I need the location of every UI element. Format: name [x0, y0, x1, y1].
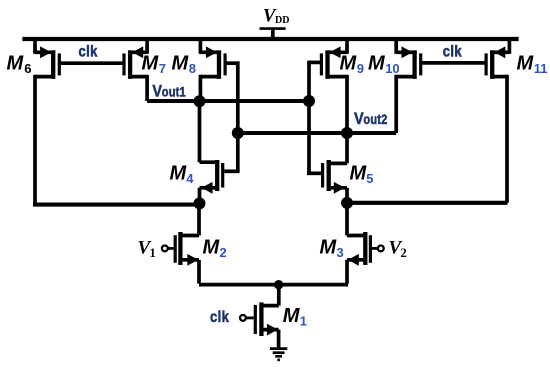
transistor M3 source lead with arrow	[347, 254, 365, 284]
transistor M4 source lead with arrow	[200, 182, 216, 204]
transistor M1 gate lead	[246, 316, 254, 319]
wire M11 drain to M5 source node	[347, 201, 508, 205]
svg-text:1: 1	[150, 246, 156, 260]
junction Vout1 / M9 gate / M5 gate	[303, 95, 315, 107]
transistor M9 (PMOS) drain lead	[328, 75, 348, 133]
wire clk gate wire M6-M7	[60, 61, 123, 65]
svg-text:1: 1	[300, 314, 307, 329]
transistor M4 gate bar	[221, 163, 224, 188]
svg-text:M: M	[7, 52, 25, 74]
junction Vout2 / M8 gate / M4 gate	[232, 127, 244, 139]
wire clk gate wire M10-M11	[422, 61, 485, 65]
transistor M9 (PMOS) channel bar	[325, 50, 329, 79]
transistor M11 (PMOS) gate bar	[485, 53, 488, 75]
transistor M8 (PMOS) source lead	[200, 37, 221, 58]
svg-text:5: 5	[366, 171, 373, 186]
wire VDD top rail	[22, 37, 518, 41]
wire VDD stub	[271, 29, 275, 39]
junction Vout1 / M8 drain / M4 drain	[194, 95, 206, 107]
svg-text:M: M	[283, 305, 301, 327]
transistor M2 channel bar	[178, 232, 182, 265]
svg-text:clk: clk	[79, 43, 98, 60]
svg-text:2: 2	[220, 245, 227, 260]
transistor M2 gate bar	[174, 235, 177, 263]
transistor M3 channel bar	[363, 232, 367, 265]
transistor M6 (PMOS) drain lead	[35, 75, 53, 207]
transistor M6 (PMOS) source lead	[35, 37, 55, 58]
transistor M9 (PMOS) gate bar	[320, 53, 323, 75]
svg-text:M: M	[368, 52, 386, 74]
svg-text:clk: clk	[210, 309, 229, 326]
svg-text:out2: out2	[363, 112, 387, 127]
junction Vout2 / M9 drain / M5 drain	[341, 127, 353, 139]
transistor M3 gate bar	[369, 235, 372, 263]
transistor M7 (PMOS) source lead	[128, 37, 147, 58]
svg-text:DD: DD	[275, 15, 289, 26]
svg-text:M: M	[320, 237, 338, 259]
transistor M3 gate lead	[372, 247, 378, 250]
wire M8 gate to Vout2	[226, 61, 238, 133]
transistor M2 source lead with arrow	[180, 254, 199, 284]
transistor M2 drain lead	[180, 204, 199, 236]
transistor M11 (PMOS) source lead	[490, 37, 509, 58]
wire M6 drain to M4 source node	[33, 203, 200, 207]
transistor M10 (PMOS) drain lead	[396, 75, 414, 133]
transistor M8 (PMOS) gate bar	[224, 53, 227, 75]
svg-text:2: 2	[401, 246, 407, 260]
junction M4 source / M6 drain / M2 drain	[194, 197, 206, 209]
transistor M7 (PMOS) drain lead	[130, 75, 147, 101]
svg-text:clk: clk	[443, 43, 462, 60]
transistor M11 (PMOS) drain lead	[492, 75, 507, 203]
label Vout1	[152, 83, 185, 101]
transistor M5 gate lead from Vout1	[307, 101, 321, 173]
input terminal V2 circle	[378, 246, 384, 252]
transistor M8 (PMOS) channel bar	[217, 50, 221, 79]
transistor M1 channel bar	[259, 302, 263, 336]
transistor M3 drain lead	[347, 203, 365, 236]
transistor M4 gate lead from Vout2	[224, 133, 239, 171]
svg-text:M: M	[142, 52, 160, 74]
transistor M10 (PMOS) source lead	[396, 37, 417, 58]
wire M9 gate to Vout1	[309, 61, 320, 101]
svg-text:9: 9	[357, 61, 364, 76]
transistor M5 channel bar	[327, 160, 331, 191]
transistor M11 (PMOS) channel bar	[490, 50, 494, 79]
transistor M1 drain lead	[261, 285, 278, 306]
transistor M7 (PMOS) channel bar	[128, 50, 132, 79]
transistor M7 (PMOS) gate bar	[122, 53, 125, 75]
label V1	[138, 238, 156, 260]
svg-text:M: M	[517, 52, 535, 74]
svg-text:M: M	[203, 237, 221, 259]
svg-text:M: M	[172, 52, 190, 74]
transistor M4 channel bar	[215, 160, 219, 191]
transistor M10 (PMOS) channel bar	[412, 50, 416, 79]
svg-text:8: 8	[189, 61, 196, 76]
svg-text:7: 7	[159, 61, 166, 76]
transistor M5 gate bar	[321, 163, 324, 188]
label V2	[389, 238, 407, 260]
transistor M10 (PMOS) gate bar	[419, 53, 422, 75]
svg-text:6: 6	[24, 61, 31, 76]
input terminal V1 circle	[162, 246, 168, 252]
ground symbol	[270, 349, 287, 360]
svg-text:out1: out1	[162, 85, 186, 100]
transistor M5 drain lead from Vout2	[328, 133, 348, 163]
transistor M5 source lead with arrow	[331, 182, 347, 203]
svg-text:3: 3	[337, 245, 344, 260]
transistor M1 source lead with arrow	[261, 324, 278, 349]
label Vout2	[354, 110, 387, 128]
svg-text:M: M	[350, 163, 368, 185]
power VDD terminal bar	[260, 27, 286, 30]
transistor M2 gate lead	[168, 247, 174, 250]
wire node Vout2 horizontal	[238, 131, 396, 135]
transistor M9 (PMOS) source lead	[325, 37, 347, 58]
wire common source M2-M3	[199, 283, 348, 287]
transistor M4 drain lead from Vout1	[200, 101, 220, 162]
svg-text:M: M	[340, 52, 358, 74]
junction tail node to M1	[274, 280, 283, 289]
junction M5 source / M11 drain / M3 drain	[341, 197, 353, 209]
svg-text:M: M	[170, 163, 188, 185]
power VDD label	[263, 7, 289, 27]
svg-text:10: 10	[385, 61, 399, 76]
transistor M6 (PMOS) gate bar	[58, 53, 61, 75]
input terminal clk circle	[240, 315, 246, 321]
svg-text:11: 11	[534, 61, 548, 76]
svg-text:4: 4	[186, 171, 194, 186]
transistor M6 (PMOS) channel bar	[51, 50, 55, 79]
transistor M8 (PMOS) drain lead	[200, 75, 219, 101]
transistor M1 gate bar	[254, 305, 257, 334]
wire node Vout1 horizontal	[147, 99, 309, 103]
